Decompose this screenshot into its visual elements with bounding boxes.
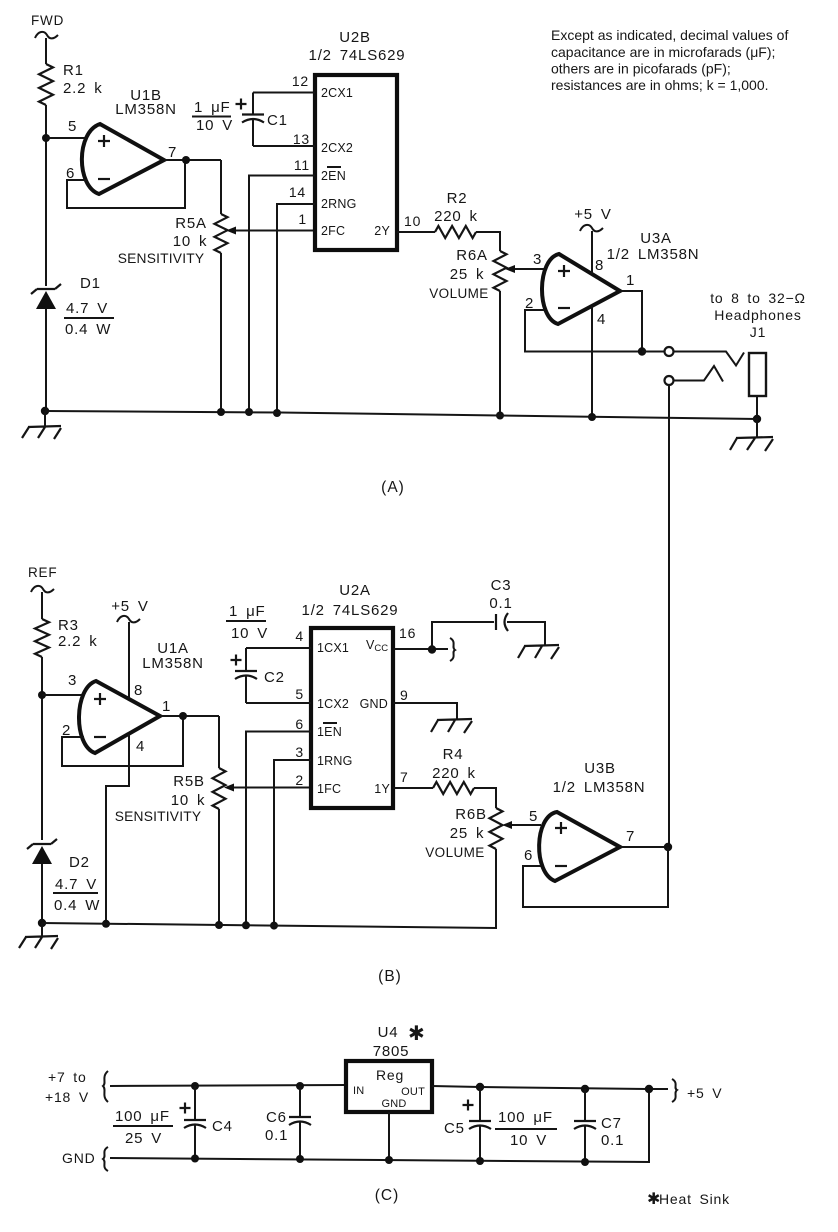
node FWD (input terminal label) — [31, 13, 64, 38]
svg-text:Headphones: Headphones — [714, 307, 801, 323]
svg-text:✱: ✱ — [408, 1023, 425, 1045]
node U3A output junction dot — [638, 347, 646, 355]
capacitor C2 — [231, 648, 285, 703]
IC U2B 74LS629 — [309, 29, 406, 250]
label C2 value 1uF 10V — [226, 603, 268, 642]
connector to +5V (brace) at pin16 — [450, 638, 455, 661]
svg-text:D1: D1 — [80, 275, 101, 292]
label C5 value 100uF 10V — [495, 1109, 557, 1149]
wire J1 to rail — [756, 396, 758, 419]
wire R5A bottom to ground rail — [220, 253, 222, 412]
jack ring contact wire and spring — [674, 366, 724, 382]
pin 14 wire 2RNG to rail — [277, 184, 315, 413]
svg-text:+18 V: +18 V — [45, 1089, 89, 1105]
svg-text:R1: R1 — [63, 62, 84, 79]
node B1 junction dot — [38, 691, 46, 699]
wire U3B output — [620, 846, 669, 848]
svg-text:2Y: 2Y — [374, 224, 390, 238]
pin 9 wire GND — [393, 687, 457, 719]
svg-text:U3B: U3B — [584, 760, 616, 777]
ground symbol J1 — [730, 419, 773, 451]
svg-text:220 k: 220 k — [432, 765, 476, 782]
wire R6B bottom to rail — [42, 849, 496, 928]
ground rail section A — [45, 411, 758, 419]
svg-text:2FC: 2FC — [321, 224, 345, 238]
svg-text:Except as indicated, decimal v: Except as indicated, decimal values of — [551, 27, 788, 43]
svg-text:220 k: 220 k — [434, 208, 478, 225]
pin 7 wire 1Y output — [393, 769, 433, 788]
wire REF to R3 — [41, 592, 43, 619]
svg-text:9: 9 — [400, 687, 409, 703]
zener diode D2 — [27, 839, 100, 914]
svg-text:(B): (B) — [378, 968, 402, 985]
wire +5V to U3A pin 8 — [591, 231, 593, 274]
jack tip contact circle — [665, 347, 674, 356]
wire node to U1B pin 5 — [46, 137, 86, 139]
capacitor C7 — [574, 1085, 624, 1162]
svg-text:1/2 LM358N: 1/2 LM358N — [553, 779, 646, 796]
svg-text:+5 V: +5 V — [111, 598, 148, 615]
wire R4 to R6B — [474, 788, 496, 808]
potentiometer R6A — [429, 247, 506, 301]
svg-text:1/2 74LS629: 1/2 74LS629 — [302, 602, 399, 619]
svg-text:OUT: OUT — [401, 1086, 425, 1098]
svg-text:5: 5 — [295, 686, 304, 702]
svg-text:R6B: R6B — [455, 806, 487, 823]
svg-text:4.7 V: 4.7 V — [66, 300, 108, 317]
node R6A rail dot — [496, 412, 504, 420]
ground symbol B left — [19, 923, 58, 949]
pin 16 wire Vcc — [393, 625, 448, 649]
label C1 value 1uF 10V — [192, 99, 233, 134]
svg-text:J1: J1 — [750, 324, 766, 340]
svg-text:1/2 74LS629: 1/2 74LS629 — [309, 47, 406, 64]
svg-text:3: 3 — [68, 672, 77, 689]
rail C bottom — [110, 1089, 649, 1162]
supply +5V section A — [574, 206, 611, 231]
svg-text:R3: R3 — [58, 617, 79, 634]
note text — [551, 27, 788, 93]
svg-text:VOLUME: VOLUME — [425, 845, 484, 860]
svg-text:C5: C5 — [444, 1120, 465, 1137]
wire output down to R5B — [218, 716, 220, 768]
svg-text:U2B: U2B — [339, 29, 371, 46]
wire U1A pin 4 jog to rail — [106, 734, 129, 924]
svg-text:12: 12 — [292, 73, 309, 89]
svg-text:5: 5 — [68, 118, 77, 135]
node A1 junction dot — [42, 134, 50, 142]
svg-text:1CX1: 1CX1 — [317, 641, 349, 655]
wire U1A feedback pin2 to output — [62, 718, 183, 766]
svg-text:6: 6 — [295, 716, 304, 732]
wiper arrow R5B to 1FC — [224, 784, 311, 792]
svg-text:GND: GND — [62, 1150, 96, 1166]
svg-text:C4: C4 — [212, 1118, 233, 1135]
svg-text:2EN: 2EN — [321, 169, 346, 183]
capacitor C6 — [265, 1082, 311, 1159]
wire pin16 node up to C3 — [432, 622, 494, 650]
capacitor C5 — [444, 1083, 491, 1161]
svg-text:1RNG: 1RNG — [317, 754, 353, 768]
svg-text:(C): (C) — [375, 1187, 400, 1204]
svg-text:2CX1: 2CX1 — [321, 86, 353, 100]
svg-text:4: 4 — [295, 628, 304, 644]
svg-text:25 V: 25 V — [125, 1130, 162, 1147]
headphone jack J1 body — [710, 290, 806, 396]
capacitor C4 — [180, 1082, 233, 1158]
svg-text:resistances are in ohms; k = 1: resistances are in ohms; k = 1,000. — [551, 77, 769, 93]
svg-text:Reg: Reg — [376, 1067, 404, 1083]
svg-text:SENSITIVITY: SENSITIVITY — [118, 251, 205, 266]
svg-text:10 k: 10 k — [173, 233, 208, 250]
wire U1A output — [160, 715, 219, 717]
wire R1 to D1 — [45, 105, 47, 286]
svg-text:0.1: 0.1 — [489, 595, 512, 612]
node 2RNG rail dot — [273, 409, 281, 417]
svg-text:16: 16 — [399, 625, 416, 641]
svg-text:4.7 V: 4.7 V — [55, 876, 97, 893]
svg-text:others are in picofarads (pF);: others are in picofarads (pF); — [551, 61, 731, 77]
node U3B output dot — [664, 843, 672, 851]
node +5V right dot — [645, 1085, 653, 1093]
pin 5 wire U2A — [246, 686, 311, 703]
svg-text:8: 8 — [595, 257, 604, 274]
svg-text:10 V: 10 V — [510, 1132, 547, 1149]
svg-text:D2: D2 — [69, 854, 90, 871]
wire D2 to rail — [41, 864, 43, 923]
op-amp U1A — [79, 640, 204, 753]
svg-text:1: 1 — [626, 272, 635, 289]
wiper arrow R5A to 2FC — [226, 227, 315, 235]
node rail-left dot — [41, 407, 49, 415]
svg-text:3: 3 — [295, 744, 304, 760]
wire node to jack tip contact — [642, 351, 664, 353]
svg-text:1EN: 1EN — [317, 725, 342, 739]
svg-text:2.2 k: 2.2 k — [63, 80, 103, 97]
svg-text:4: 4 — [136, 738, 145, 755]
svg-text:25 k: 25 k — [450, 266, 485, 283]
node U1A output dot — [179, 712, 187, 720]
svg-text:1 μF: 1 μF — [194, 99, 231, 116]
svg-text:+7 to: +7 to — [48, 1069, 87, 1085]
node R5A rail dot — [217, 408, 225, 416]
svg-text:1: 1 — [298, 211, 307, 227]
svg-text:C3: C3 — [491, 577, 512, 594]
svg-text:10 k: 10 k — [171, 792, 206, 809]
capacitor C3 — [489, 577, 512, 631]
jack ring contact circle — [665, 376, 674, 385]
IC U2A 74LS629 — [302, 582, 399, 808]
wire node to U1A pin 3 — [42, 694, 83, 696]
svg-text:U4: U4 — [378, 1024, 399, 1041]
svg-text:1 μF: 1 μF — [229, 603, 266, 620]
svg-text:25 k: 25 k — [450, 825, 485, 842]
wiper arrow R6A to U3A pin 3 — [505, 265, 544, 273]
svg-text:+5 V: +5 V — [574, 206, 611, 223]
svg-text:GND: GND — [381, 1098, 406, 1110]
pin 12 wire U2B — [253, 73, 315, 93]
svg-text:Heat Sink: Heat Sink — [659, 1191, 730, 1207]
wire C3 to ground — [507, 622, 545, 645]
node C6 rail dot — [296, 1155, 304, 1163]
wire U3A feedback pin 2 — [525, 310, 642, 352]
svg-text:C2: C2 — [264, 669, 285, 686]
svg-text:(A): (A) — [381, 479, 405, 496]
node C4 rail dot — [191, 1155, 199, 1163]
svg-text:R5A: R5A — [175, 215, 207, 232]
svg-text:10: 10 — [404, 213, 421, 229]
svg-text:3: 3 — [533, 251, 542, 268]
svg-text:100 μF: 100 μF — [498, 1109, 553, 1126]
svg-text:capacitance are in microfarads: capacitance are in microfarads (μF); — [551, 44, 775, 60]
wire U4 GND pin to rail — [388, 1112, 390, 1160]
node pin16 dot — [428, 645, 436, 653]
node R5B rail dot — [215, 921, 223, 929]
svg-text:GND: GND — [360, 697, 388, 711]
node 2EN rail dot — [245, 408, 253, 416]
rail C top — [110, 1085, 346, 1086]
svg-text:U2A: U2A — [339, 582, 371, 599]
label +7 to +18 V input — [45, 1069, 108, 1105]
svg-text:U3A: U3A — [640, 230, 672, 247]
pin 11 wire 2EN to rail — [249, 157, 315, 412]
wire R5B bottom to rail — [218, 809, 220, 926]
pin 6 wire 1EN to rail — [246, 716, 311, 926]
svg-text:0.1: 0.1 — [601, 1132, 624, 1149]
regulator U4 7805 — [346, 1023, 432, 1112]
svg-text:14: 14 — [289, 184, 306, 200]
svg-text:6: 6 — [524, 847, 533, 864]
svg-text:SENSITIVITY: SENSITIVITY — [115, 809, 202, 824]
svg-text:7: 7 — [400, 769, 409, 785]
svg-text:LM358N: LM358N — [142, 655, 204, 672]
resistor R3 — [35, 617, 98, 657]
wire U3A output to jack — [620, 291, 642, 352]
wire U3A pin 4 to rail — [591, 306, 593, 416]
svg-text:VOLUME: VOLUME — [429, 286, 488, 301]
svg-text:VCC: VCC — [366, 638, 388, 654]
ground symbol A left — [22, 411, 61, 439]
svg-text:2RNG: 2RNG — [321, 197, 357, 211]
connector +5V out (brace) — [672, 1079, 722, 1102]
ground symbol pin 9 — [431, 719, 472, 733]
svg-text:1: 1 — [162, 698, 171, 715]
wire jack ring to U3B output (long vertical) — [668, 385, 670, 847]
wire U1B feedback pin6 to output — [67, 162, 185, 208]
note heat sink — [647, 1191, 730, 1208]
svg-text:10 V: 10 V — [231, 625, 268, 642]
svg-text:0.4 W: 0.4 W — [65, 321, 111, 338]
wiper arrow R6B to U3B pin 5 — [502, 821, 541, 829]
svg-text:FWD: FWD — [31, 13, 64, 28]
svg-text:IN: IN — [353, 1085, 364, 1097]
op-amp U3A — [542, 230, 699, 324]
svg-text:LM358N: LM358N — [115, 101, 177, 118]
svg-text:4: 4 — [597, 311, 606, 328]
ground symbol C3 — [518, 645, 559, 659]
svg-text:5: 5 — [529, 808, 538, 825]
svg-text:13: 13 — [293, 131, 310, 147]
svg-text:2: 2 — [295, 772, 304, 788]
resistor R1 — [39, 62, 103, 105]
svg-text:R5B: R5B — [173, 773, 205, 790]
svg-text:C1: C1 — [267, 112, 288, 129]
node REF (input terminal label) — [28, 565, 57, 592]
node 1EN rail dot — [242, 921, 250, 929]
svg-text:0.4 W: 0.4 W — [54, 897, 100, 914]
potentiometer R5A — [118, 214, 228, 266]
svg-text:to 8 to 32−Ω: to 8 to 32−Ω — [710, 290, 806, 306]
svg-text:R2: R2 — [447, 190, 468, 207]
supply +5V section B — [111, 598, 148, 622]
wire U3B feedback pin 6 — [523, 847, 668, 907]
node 1RNG rail dot — [270, 922, 278, 930]
jack tip contact wire and plug tip V — [674, 352, 745, 366]
wire R6A bottom to rail — [499, 291, 501, 415]
pin 10 wire 2Y output — [397, 213, 435, 232]
svg-text:+5 V: +5 V — [687, 1085, 722, 1101]
svg-text:C6: C6 — [266, 1109, 287, 1126]
node +5V rail dot — [588, 413, 596, 421]
pin 3 wire 1RNG to rail — [274, 744, 311, 927]
svg-text:C7: C7 — [601, 1115, 622, 1132]
svg-text:2.2 k: 2.2 k — [58, 633, 98, 650]
svg-text:0.1: 0.1 — [265, 1127, 288, 1144]
node C5 rail dot — [476, 1157, 484, 1165]
pin 4 wire U2A — [246, 628, 311, 648]
svg-text:100 μF: 100 μF — [115, 1108, 170, 1125]
potentiometer R5B — [115, 768, 226, 824]
svg-text:1FC: 1FC — [317, 782, 341, 796]
capacitor C1 — [236, 93, 288, 147]
svg-text:1Y: 1Y — [374, 782, 390, 796]
svg-text:10 V: 10 V — [196, 117, 233, 134]
wire D1 to rail — [45, 309, 47, 411]
label GND input — [62, 1147, 108, 1171]
resistor R2 — [434, 190, 478, 238]
node J1 rail dot — [753, 415, 761, 423]
svg-text:2CX2: 2CX2 — [321, 141, 353, 155]
pin 13 wire U2B — [253, 131, 315, 147]
svg-text:R6A: R6A — [456, 247, 488, 264]
svg-text:11: 11 — [294, 157, 310, 173]
svg-text:7: 7 — [626, 828, 635, 845]
resistor R4 — [432, 746, 476, 794]
potentiometer R6B — [425, 806, 502, 860]
svg-text:1/2 LM358N: 1/2 LM358N — [607, 246, 700, 263]
label C4 value 100uF 25V — [113, 1108, 173, 1147]
svg-text:8: 8 — [134, 682, 143, 699]
svg-text:7: 7 — [168, 144, 177, 161]
node C7 rail dot — [581, 1158, 589, 1166]
svg-text:7805: 7805 — [373, 1043, 410, 1060]
node U1B output dot — [182, 156, 190, 164]
wire +5V to U1A pin 8 — [128, 622, 130, 699]
wire FWD to R1 — [45, 38, 47, 64]
svg-text:R4: R4 — [443, 746, 464, 763]
op-amp U1B — [82, 87, 177, 194]
svg-text:1CX2: 1CX2 — [317, 697, 349, 711]
wire U1B output — [164, 159, 221, 161]
node rail-left dot B — [38, 919, 46, 927]
zener diode D1 — [31, 275, 114, 338]
wire R2 to R6A — [476, 232, 500, 251]
svg-text:REF: REF — [28, 565, 57, 580]
node U4 gnd rail dot — [385, 1156, 393, 1164]
wire U4 OUT to +5V — [432, 1086, 668, 1089]
wire output down to R5A — [220, 160, 222, 214]
wire R3 to D2 — [41, 657, 43, 840]
op-amp U3B — [539, 760, 645, 881]
node pin4 rail dot — [102, 920, 110, 928]
